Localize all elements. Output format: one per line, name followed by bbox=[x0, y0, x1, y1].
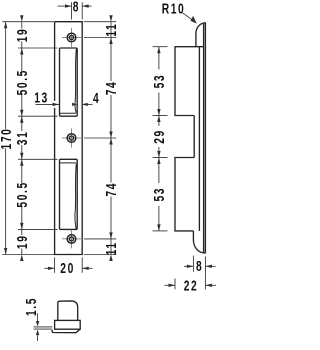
svg-text:4: 4 bbox=[93, 90, 100, 106]
dimension 1.5 (lip thickness) bbox=[37, 313, 39, 321]
svg-text:50.5: 50.5 bbox=[14, 181, 30, 207]
svg-text:8: 8 bbox=[73, 0, 80, 15]
extension line plate bottom (left) bbox=[2, 254, 54, 256]
latch cutout 1 bbox=[60, 48, 78, 116]
svg-text:53: 53 bbox=[151, 74, 167, 89]
screw hole bottom bbox=[62, 238, 81, 240]
dimension line segments x=158.9 bbox=[158, 47, 160, 70]
cutout 2 latch lip edge (curved) bbox=[75, 164, 76, 229]
dimension 13 (cutout width) bbox=[36, 103, 60, 105]
svg-text:19: 19 bbox=[14, 28, 30, 43]
svg-text:8: 8 bbox=[196, 258, 203, 274]
side view: bottom lip (R10 bend) bbox=[193, 231, 205, 253]
svg-text:1.5: 1.5 bbox=[23, 297, 39, 316]
arrow 31 top bbox=[20, 116, 23, 123]
side view: middle connecting box bbox=[193, 116, 195, 158]
svg-text:11: 11 bbox=[104, 23, 120, 37]
cutout 1 lip fold line bbox=[60, 112, 76, 114]
dimension 4 (cutout to edge) bbox=[72, 103, 77, 106]
svg-text:31: 31 bbox=[14, 131, 30, 146]
arrow 19 top bbox=[20, 15, 23, 22]
side view: box inner wall line bbox=[198, 47, 200, 231]
side view: strike box lower bbox=[175, 158, 194, 231]
svg-text:74: 74 bbox=[104, 182, 120, 197]
dimension 8 (top, hole centre to right edge) bbox=[71, 2, 73, 19]
extension line right bbox=[81, 257, 83, 273]
svg-text:R10: R10 bbox=[162, 1, 186, 17]
svg-text:11: 11 bbox=[104, 241, 120, 255]
latch cutout 2 bbox=[60, 159, 78, 229]
svg-text:29: 29 bbox=[151, 129, 167, 144]
detail view: bent lip (3D) bbox=[58, 301, 78, 321]
side view: plate front face bbox=[203, 23, 205, 252]
dimension line segments x=111 bbox=[110, 22, 112, 81]
cutout 2 lip fold line bbox=[60, 162, 76, 164]
detail view: plate edge lines (1.5 thick) bbox=[34, 326, 53, 328]
svg-text:50.5: 50.5 bbox=[14, 69, 30, 95]
extension lines for 19 / 50.5 / 31 / 50.5 / 19 bbox=[18, 47, 58, 49]
strike plate front view outline bbox=[55, 22, 83, 255]
extension line plate top (left) bbox=[2, 21, 54, 23]
svg-text:19: 19 bbox=[14, 234, 30, 249]
extension line left bbox=[54, 257, 56, 273]
side view: top lip (R10 bend) bbox=[196, 23, 204, 47]
side view: strike box upper bbox=[175, 47, 204, 116]
extension lines right column bbox=[84, 21, 116, 23]
arrow 50.5 bottom bbox=[20, 110, 23, 117]
arrow at cutout1 top bbox=[20, 48, 23, 55]
extension line plate back bbox=[204, 257, 206, 290]
screw hole middle bbox=[62, 137, 81, 139]
extension line lip edge bbox=[192, 256, 194, 272]
side view: plate back face bbox=[204, 23, 206, 254]
arrow 74 top bbox=[109, 38, 112, 45]
svg-text:170: 170 bbox=[0, 128, 14, 150]
svg-text:20: 20 bbox=[60, 260, 75, 276]
extension lines 53/29/53 bbox=[153, 46, 168, 48]
cutout 1 latch lip edge (curved) bbox=[75, 49, 76, 113]
svg-text:74: 74 bbox=[104, 81, 120, 96]
svg-text:22: 22 bbox=[184, 278, 199, 294]
detail view: lower slab edge (3D) bbox=[52, 329, 80, 332]
arrow at cutout2 bottom bbox=[20, 223, 23, 230]
svg-text:13: 13 bbox=[34, 90, 49, 106]
side view: plate top end bbox=[204, 22, 206, 24]
arrow 19 bottom bbox=[20, 255, 23, 262]
screw hole top bbox=[62, 37, 81, 39]
arrow 11 top bbox=[109, 15, 112, 22]
extension line box left bbox=[174, 279, 176, 290]
arrow 31 bottom bbox=[20, 153, 23, 160]
svg-text:53: 53 bbox=[151, 187, 167, 202]
detail view: plate base (3D) bbox=[55, 320, 81, 329]
arrow 50.5 top bbox=[20, 159, 23, 166]
dimension line segments x=21.8 bbox=[21, 22, 23, 29]
